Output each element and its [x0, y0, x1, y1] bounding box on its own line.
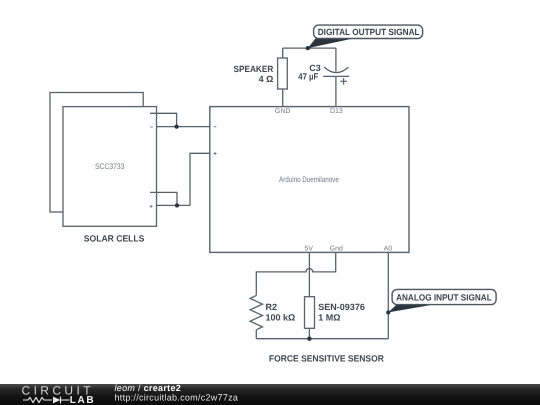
- capacitor C3 straight plate: [323, 75, 349, 77]
- wire front cell plus stub: [157, 204, 191, 206]
- svg-text:A0: A0: [384, 246, 393, 253]
- pin label - (solar front): [150, 126, 153, 128]
- svg-text:DIGITAL OUTPUT SIGNAL: DIGITAL OUTPUT SIGNAL: [318, 27, 420, 37]
- resistor R2 bottom lead: [255, 330, 257, 339]
- wire A0 down: [387, 252, 389, 338]
- resistor SEN-09376 body: [305, 297, 315, 329]
- callout DIGITAL OUTPUT SIGNAL: [314, 25, 423, 38]
- wire back cell minus: [150, 113, 177, 126]
- svg-text:http://circuitlab.com/c2w77za: http://circuitlab.com/c2w77za: [115, 392, 239, 402]
- svg-text:100 kΩ: 100 kΩ: [266, 313, 296, 323]
- wire Gnd down and left with hop: [256, 252, 335, 295]
- svg-text:4 Ω: 4 Ω: [259, 74, 274, 84]
- pin label + (solar front): [150, 205, 153, 208]
- resistor SEN-09376 bottom lead: [308, 328, 310, 338]
- junction dot minus net: [174, 124, 178, 128]
- svg-text:D13: D13: [330, 108, 343, 115]
- svg-text:5V: 5V: [304, 246, 313, 253]
- wire plus net up to arduino: [190, 153, 210, 205]
- wire back cell plus: [150, 192, 177, 205]
- capacitor C3 top lead: [335, 48, 337, 71]
- svg-text:LAB: LAB: [70, 395, 96, 405]
- solar cell back rectangle: [50, 93, 143, 213]
- wire front cell minus to arduino: [157, 126, 210, 128]
- wire speaker to cap top net: [283, 47, 336, 49]
- footer url line: [115, 392, 239, 402]
- logo CIRCUIT text: [22, 384, 94, 398]
- resistor R2 zigzag: [250, 296, 262, 330]
- logo resistor zigzag: [23, 398, 52, 403]
- junction dot bottom: [307, 337, 311, 341]
- speaker SP1 body: [278, 58, 288, 89]
- svg-text:R2: R2: [266, 302, 278, 312]
- logo diode: [53, 397, 70, 404]
- capacitor C3 plus mark: [340, 78, 347, 85]
- svg-text:SOLAR CELLS: SOLAR CELLS: [84, 234, 145, 244]
- flag tail analog: [388, 305, 433, 313]
- pin label - (arduino): [214, 126, 217, 128]
- flag tail digital: [308, 39, 352, 49]
- logo LAB text: [70, 395, 96, 405]
- footer bar: [0, 384, 540, 405]
- junction dot plus net: [175, 203, 179, 207]
- svg-text:SCC3733: SCC3733: [95, 162, 125, 171]
- capacitor C3 bottom lead: [335, 76, 337, 106]
- junction dot A0 flag: [386, 310, 390, 314]
- svg-text:FORCE SENSITIVE SENSOR: FORCE SENSITIVE SENSOR: [269, 353, 384, 363]
- op box Arduino Duemilanove U1: [210, 107, 409, 253]
- svg-text:1 MΩ: 1 MΩ: [318, 313, 340, 323]
- pin label + (arduino): [214, 152, 217, 155]
- footer author line: [115, 383, 182, 393]
- svg-text:GND: GND: [275, 108, 291, 115]
- svg-text:47 µF: 47 µF: [298, 71, 318, 81]
- svg-text:ANALOG INPUT SIGNAL: ANALOG INPUT SIGNAL: [396, 292, 492, 302]
- speaker SP1 leads: [282, 48, 284, 107]
- callout ANALOG INPUT SIGNAL: [392, 289, 496, 304]
- svg-text:Arduino Duemilanove: Arduino Duemilanove: [279, 175, 339, 184]
- wire 5V to SEN: [308, 252, 310, 296]
- svg-text:SPEAKER: SPEAKER: [234, 64, 274, 74]
- junction dot top net: [306, 46, 310, 50]
- capacitor C3 curved plate: [324, 67, 348, 73]
- svg-text:leom / crearte2: leom / crearte2: [115, 383, 182, 393]
- bottom wire: [256, 338, 388, 340]
- svg-text:SEN-09376: SEN-09376: [318, 302, 365, 312]
- solar cell front rectangle SCC3733: [63, 107, 157, 227]
- svg-text:Gnd: Gnd: [330, 245, 343, 253]
